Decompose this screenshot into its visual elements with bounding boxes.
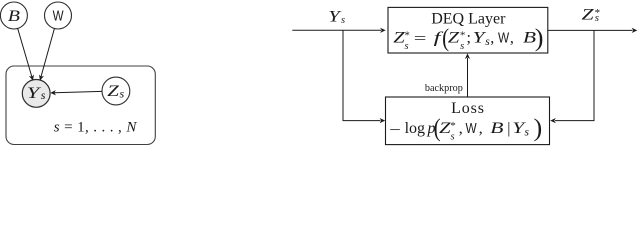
- svg-text:s: s: [405, 41, 409, 52]
- svg-text:−: −: [389, 121, 401, 139]
- svg-text:s: s: [451, 131, 455, 142]
- svg-text:W: W: [53, 7, 64, 24]
- svg-text:W: W: [466, 120, 477, 137]
- svg-text:Y: Y: [328, 8, 342, 25]
- svg-text:W: W: [498, 29, 509, 46]
- svg-text:B: B: [490, 120, 504, 138]
- svg-text:s: s: [595, 12, 599, 24]
- svg-text:s: s: [41, 88, 46, 102]
- svg-text:,: ,: [490, 30, 494, 47]
- svg-text:*: *: [450, 120, 456, 132]
- svg-text:s: s: [525, 126, 530, 138]
- svg-text:): ): [535, 23, 544, 52]
- svg-text:,: ,: [459, 120, 463, 137]
- svg-text:,: ,: [510, 30, 514, 47]
- svg-text:,: ,: [479, 120, 483, 137]
- svg-text:|: |: [507, 120, 510, 137]
- svg-text:): ): [534, 113, 543, 142]
- svg-text:*: *: [404, 29, 410, 41]
- svg-text:=: =: [414, 30, 427, 47]
- svg-text:s: s: [341, 15, 345, 26]
- svg-text:*: *: [460, 29, 466, 41]
- svg-text:B: B: [8, 7, 20, 25]
- svg-text:s: s: [460, 41, 464, 52]
- svg-text:;: ;: [467, 30, 471, 47]
- svg-text:Z: Z: [582, 6, 595, 24]
- svg-text:Loss: Loss: [451, 100, 485, 117]
- svg-text:s = 1, . . . , N: s = 1, . . . , N: [54, 119, 138, 135]
- svg-text:backprop: backprop: [425, 83, 463, 94]
- svg-text:log: log: [405, 120, 425, 137]
- svg-text:Z: Z: [107, 82, 119, 100]
- svg-text:s: s: [120, 86, 125, 100]
- svg-text:Z: Z: [448, 29, 460, 46]
